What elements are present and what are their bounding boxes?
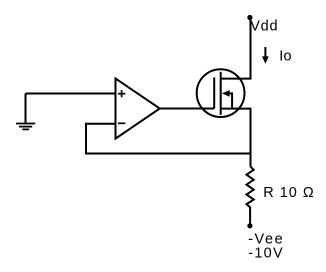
svg-text:-10V: -10V (248, 246, 284, 262)
svg-text:Vdd: Vdd (250, 19, 278, 35)
svg-text:Io: Io (279, 49, 292, 65)
svg-text:R 10 Ω: R 10 Ω (263, 185, 315, 201)
